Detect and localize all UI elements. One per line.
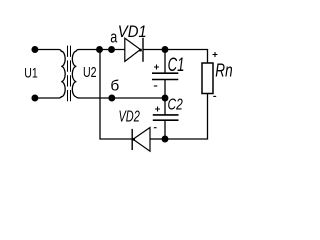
resistor Rn body — [202, 63, 213, 94]
node dot primary top terminal — [31, 46, 38, 53]
capacitor C1 bottom plate — [152, 79, 178, 81]
minus mark C2 — [154, 127, 157, 129]
node dot primary bottom terminal — [31, 95, 38, 102]
wire VD2 anode to bottom node — [150, 138, 165, 140]
wire C1 to mid node — [164, 80, 166, 99]
node dot mid (C1- / C2+ / b) — [162, 95, 169, 102]
svg-text:U1: U1 — [24, 65, 38, 80]
node dot junction left rail on a-wire — [96, 46, 103, 53]
plus mark Rn — [213, 52, 218, 57]
svg-text:C2: C2 — [168, 97, 183, 114]
capacitor C2 bottom plate — [153, 119, 179, 121]
diode VD2 apex junction blob — [132, 138, 135, 141]
svg-text:VD1: VD1 — [118, 23, 147, 41]
minus mark Rn — [213, 95, 216, 97]
capacitor C1 top plate — [152, 72, 178, 74]
wire C2 to bottom node — [164, 120, 166, 139]
minus mark C1 — [154, 85, 158, 87]
svg-text:C1: C1 — [168, 55, 185, 76]
transformer secondary winding U2 — [72, 51, 76, 97]
node dot terminal a — [108, 46, 115, 53]
wire left rail from node a down to bottom rail — [100, 50, 132, 140]
capacitor C2 top plate — [153, 114, 179, 116]
diode VD2 cathode bar — [131, 129, 133, 150]
diode VD1 triangle — [125, 38, 141, 61]
plus mark C1 — [154, 65, 159, 70]
node dot top (VD1 cathode / C1+ / Rn+) — [162, 46, 169, 53]
wire top rail to Rn — [165, 50, 208, 64]
wire secondary top to node a and VD1 anode — [76, 50, 124, 52]
wire top node down to C1 — [164, 50, 166, 74]
diode VD2 triangle — [133, 128, 150, 152]
svg-text:a: a — [110, 28, 117, 47]
svg-text:U2: U2 — [83, 65, 97, 81]
node dot terminal b — [108, 95, 115, 102]
wire mid node down to C2 — [164, 98, 166, 115]
svg-text:VD2: VD2 — [119, 109, 141, 126]
svg-text:б: б — [110, 78, 119, 94]
transformer primary winding U1 — [35, 50, 65, 99]
wire secondary bottom (node b rail) to mid node — [76, 97, 165, 98]
transformer core — [68, 46, 71, 104]
diode VD1 apex junction blob — [139, 49, 142, 52]
wire VD1 cathode to top node — [143, 49, 165, 51]
svg-text:Rn: Rn — [215, 61, 232, 81]
plus mark C2 — [155, 107, 160, 112]
wire bottom rail to Rn bottom — [165, 94, 208, 140]
diode VD1 cathode bar — [142, 38, 144, 62]
node dot bottom (C2- / VD2 anode / Rn-) — [162, 136, 169, 143]
